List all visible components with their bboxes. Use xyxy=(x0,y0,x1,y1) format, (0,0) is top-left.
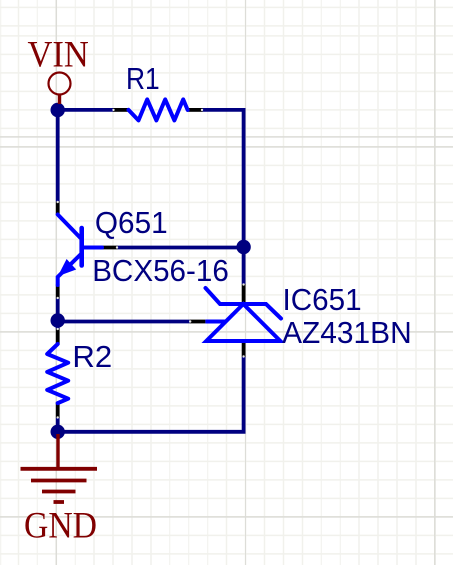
pin Q651 collector xyxy=(56,202,60,215)
pin R1.2 xyxy=(188,108,203,112)
wire VIN node down to Q651 collector xyxy=(56,108,60,202)
pin origin dot IC651 cathode xyxy=(242,283,244,285)
svg-text:BCX56-16: BCX56-16 xyxy=(92,253,229,288)
pin origin dot IC651 anode xyxy=(242,355,244,357)
transistor Q651 emitter arrow xyxy=(58,259,76,276)
pin IC651 anode xyxy=(242,341,246,357)
pin origin dot R1.1 xyxy=(112,109,114,111)
pin origin dot Q651 emitter xyxy=(57,297,59,299)
port VIN stub xyxy=(58,95,61,105)
pin IC651 cathode xyxy=(242,284,246,303)
wire VIN node to R1 xyxy=(56,108,113,112)
ground bar 2 xyxy=(31,479,87,483)
junction node emitter/R2/ref xyxy=(51,313,65,327)
ground bar 1 xyxy=(21,467,98,471)
svg-text:AZ431BN: AZ431BN xyxy=(282,315,412,350)
pin Q651 base xyxy=(101,246,118,250)
wire Q651 base to node xyxy=(118,246,244,250)
pin Q651 emitter xyxy=(56,285,60,299)
pin R2.1 xyxy=(56,329,60,345)
pin origin dot Q651 base xyxy=(116,246,118,248)
ground stub xyxy=(56,434,59,468)
svg-text:R2: R2 xyxy=(72,339,112,374)
pin origin dot IC651 ref xyxy=(189,320,191,322)
pin origin dot R1.2 xyxy=(201,109,203,111)
resistor R2 xyxy=(47,344,68,403)
wire node to IC651 ref xyxy=(58,320,190,324)
IC651 ref line xyxy=(205,320,226,324)
resistor R1 xyxy=(129,99,188,120)
junction node VIN xyxy=(51,103,65,117)
pin origin dot Q651 collector xyxy=(57,201,59,203)
svg-text:VIN: VIN xyxy=(28,33,89,74)
svg-text:Q651: Q651 xyxy=(95,205,168,240)
pin R1.1 xyxy=(113,108,129,112)
wire R2 bottom to GND node xyxy=(56,418,60,434)
port VIN circle xyxy=(49,73,71,95)
pin R2.2 xyxy=(56,403,60,419)
junction node GND xyxy=(51,425,65,439)
transistor Q651 base lead xyxy=(83,246,102,250)
ground bar 4 xyxy=(54,500,65,504)
pin IC651 ref xyxy=(190,320,206,324)
transistor Q651 base bar xyxy=(79,228,84,266)
pin origin dot R2.1 xyxy=(57,328,59,330)
svg-text:IC651: IC651 xyxy=(283,282,362,317)
transistor Q651 emitter diagonal xyxy=(58,255,81,286)
IC651 triangle xyxy=(206,304,280,341)
IC651 cathode bar with zener bends xyxy=(206,288,282,319)
svg-text:R1: R1 xyxy=(126,61,160,96)
wire Q651 emitter down to R2 node xyxy=(56,299,60,330)
junction node base/R1 xyxy=(236,240,250,254)
wire R1 right to corner down to Q651 base node xyxy=(203,110,244,284)
wire GND node to bottom corner xyxy=(58,357,244,432)
ground bar 3 xyxy=(42,490,76,494)
svg-text:GND: GND xyxy=(24,505,97,546)
pin origin dot R2.2 xyxy=(57,416,59,418)
transistor Q651 collector diagonal xyxy=(58,215,81,239)
